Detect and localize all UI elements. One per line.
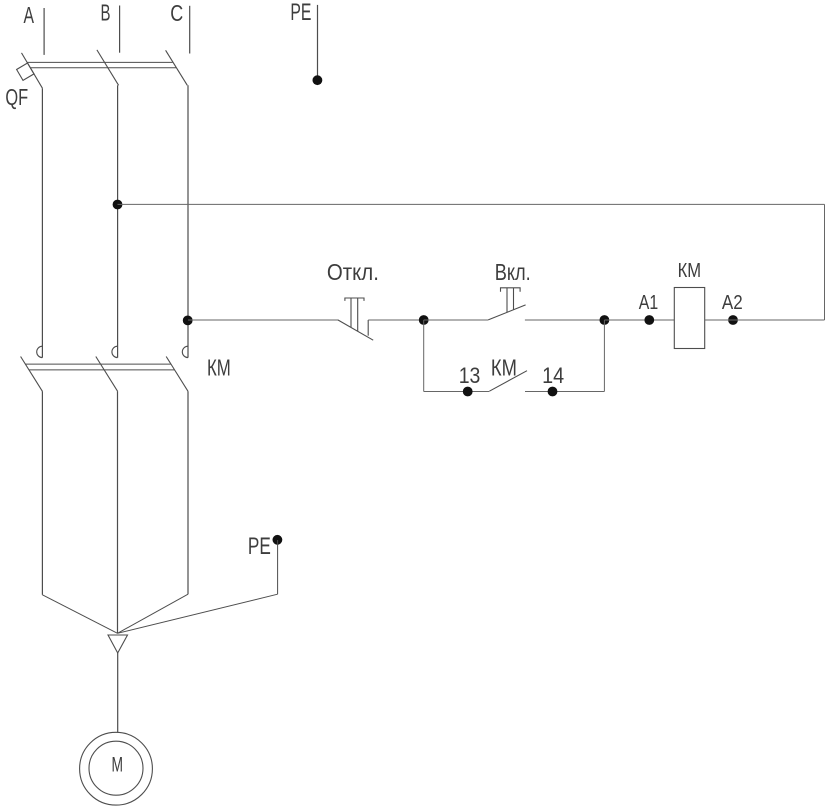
wire KM coil to right riser (705, 319, 825, 321)
right riser wire (824, 204, 826, 320)
wire Откл to node 1 (368, 319, 424, 321)
phase C wire KM to delta (187, 391, 189, 594)
svg-text:PE: PE (248, 533, 271, 560)
terminal 13 dot (463, 387, 473, 397)
KM pole C blade (166, 357, 188, 392)
QF linkage bar top (27, 61, 172, 63)
phase A wire QF to KM (41, 88, 43, 357)
svg-text:B: B (101, 0, 111, 26)
PE node dot (motor) (273, 535, 283, 545)
phase C delta lead (118, 594, 189, 633)
QF pole C blade (166, 50, 188, 85)
KM coil (674, 288, 704, 349)
node B control tap (113, 200, 123, 210)
latch branch wire down from node 1 (423, 320, 425, 392)
latch branch bottom wire left (424, 391, 490, 393)
KM pole A blade (21, 357, 43, 392)
svg-text:КМ: КМ (491, 354, 517, 380)
latch branch bottom wire right (525, 391, 604, 393)
KM linkage bar top (25, 363, 171, 365)
svg-text:M: M (112, 753, 124, 776)
phase B wire KM to delta apex (117, 391, 119, 633)
phase A delta lead (42, 595, 117, 634)
svg-text:КМ: КМ (207, 355, 231, 381)
phase C wire QF to KM (187, 85, 189, 357)
wire Вкл to node 2 (525, 319, 605, 321)
KM pole C fixed contact arc (182, 346, 188, 357)
control wire C tap to Откл button (188, 319, 338, 321)
Вкл NO contact blade (488, 305, 525, 320)
phase A wire KM to delta (41, 391, 43, 595)
motor inner circle (89, 741, 143, 795)
KM pole B fixed contact arc (112, 346, 118, 357)
latch branch riser to node 2 (603, 320, 605, 392)
svg-text:QF: QF (5, 84, 28, 110)
motor PE wire diagonal to apex (118, 594, 278, 633)
control wire from B tap to right riser (118, 203, 825, 205)
Откл NC contact blade (338, 320, 373, 340)
motor outer circle (80, 732, 153, 805)
svg-text:13: 13 (459, 363, 481, 388)
svg-text:A1: A1 (639, 292, 658, 314)
wire node 2 to KM coil (604, 319, 674, 321)
Вкл button actuator (501, 288, 521, 312)
PE feeder wire (317, 5, 319, 77)
wire node 1 to Вкл (424, 319, 489, 321)
svg-text:A2: A2 (722, 292, 743, 314)
terminal 14 dot (548, 387, 558, 397)
Откл button actuator (345, 298, 364, 331)
KM aux contact blade (489, 371, 527, 392)
QF linkage bar bottom (30, 67, 176, 69)
A1 terminal dot (644, 315, 654, 325)
motor lead wire (117, 653, 119, 732)
node C control tap (183, 316, 193, 326)
delta winding symbol (108, 635, 128, 653)
QF pole B blade (97, 50, 119, 85)
phase B wire QF to KM (117, 85, 119, 357)
QF breaker square (17, 63, 34, 80)
svg-text:PE: PE (290, 0, 311, 26)
svg-text:Откл.: Откл. (327, 259, 379, 285)
KM pole A fixed contact arc (37, 346, 43, 357)
KM pole B blade (96, 357, 118, 392)
KM linkage bar bottom (29, 369, 175, 371)
phase B feeder wire (119, 6, 121, 53)
motor PE wire vertical (277, 540, 279, 594)
node 1 dot (419, 315, 429, 325)
node 2 dot (600, 315, 610, 325)
phase C feeder wire (189, 6, 191, 54)
svg-text:A: A (24, 2, 35, 28)
Откл fixed terminal tick (367, 320, 369, 336)
phase A feeder wire (43, 8, 45, 55)
QF pole A blade (22, 53, 43, 88)
PE node dot (313, 75, 323, 85)
svg-text:C: C (170, 0, 183, 26)
A2 terminal dot (728, 315, 738, 325)
svg-text:Вкл.: Вкл. (495, 259, 531, 285)
svg-text:КМ: КМ (678, 260, 702, 282)
svg-text:14: 14 (542, 363, 564, 388)
